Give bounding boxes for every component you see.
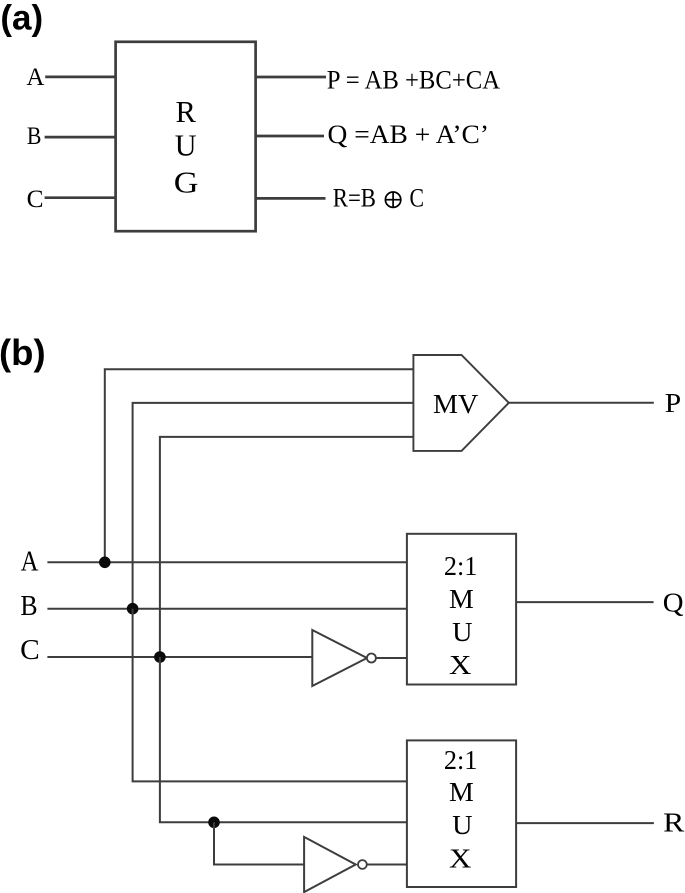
svg-text:P = AB +BC+CA: P = AB +BC+CA	[327, 66, 500, 95]
svg-text:X: X	[449, 844, 472, 874]
svg-text:(a): (a)	[0, 0, 43, 38]
wire output P (b)	[509, 402, 654, 404]
wire output R (a)	[256, 197, 326, 200]
wire output R (b)	[516, 822, 654, 824]
svg-text:MV: MV	[433, 388, 478, 419]
junction dot select	[208, 817, 220, 829]
svg-text:B: B	[27, 123, 42, 150]
svg-text:U: U	[175, 128, 197, 163]
wire inverter U2 to MUX1	[376, 657, 407, 659]
svg-text:C: C	[410, 184, 425, 213]
RUG block U1	[116, 42, 256, 231]
svg-text:C: C	[27, 186, 44, 213]
wire inverter U3 to MUX2	[367, 864, 407, 866]
wire output Q (a)	[256, 135, 324, 138]
svg-text:C: C	[20, 635, 40, 666]
junction dot B	[127, 603, 139, 615]
inverter U3 bubble	[358, 860, 367, 869]
svg-text:Q: Q	[663, 587, 684, 618]
inverter U3 triangle	[304, 837, 356, 892]
wire input C (a)	[45, 196, 116, 199]
svg-text:X: X	[449, 650, 472, 680]
svg-text:Q =AB + A’C’: Q =AB + A’C’	[328, 120, 490, 149]
wire bus B to MUX2	[133, 609, 407, 782]
wire input A (a)	[45, 76, 115, 79]
svg-text:U: U	[452, 810, 472, 840]
wire output Q (b)	[516, 601, 654, 603]
svg-text:A: A	[21, 546, 39, 577]
svg-text:2:1: 2:1	[444, 551, 478, 581]
svg-text:P: P	[665, 387, 681, 418]
svg-text:G: G	[174, 165, 199, 200]
wire input A (b)	[47, 561, 407, 563]
wire bus A to MV	[105, 369, 414, 562]
svg-text:B: B	[20, 591, 37, 622]
junction dot C	[154, 651, 166, 663]
wire input B (a)	[45, 136, 116, 139]
svg-text:R: R	[176, 94, 197, 129]
wire bus C to MV	[160, 437, 414, 657]
svg-text:(b): (b)	[0, 332, 46, 373]
wire bus B to MV	[133, 403, 414, 609]
junction dot A	[99, 557, 111, 569]
svg-text:R=B: R=B	[333, 184, 376, 213]
wire output P (a)	[256, 76, 326, 79]
majority voter MV	[413, 355, 508, 451]
MUX1 box	[407, 534, 516, 685]
svg-text:U: U	[452, 617, 472, 647]
MUX2 box	[407, 740, 516, 887]
svg-text:A: A	[26, 64, 44, 91]
svg-text:M: M	[449, 777, 474, 807]
svg-text:2:1: 2:1	[444, 745, 478, 775]
wire input B (b)	[47, 608, 407, 610]
inverter U2 bubble	[367, 654, 376, 663]
inverter U2 triangle	[312, 630, 367, 686]
wire bus C to MUX2	[160, 657, 407, 822]
svg-text:R: R	[663, 807, 685, 838]
wire select branch to inverter U3	[214, 822, 304, 864]
wire input C (b)	[47, 656, 313, 658]
xor symbol in equation R	[385, 192, 400, 207]
svg-text:M: M	[449, 584, 474, 614]
